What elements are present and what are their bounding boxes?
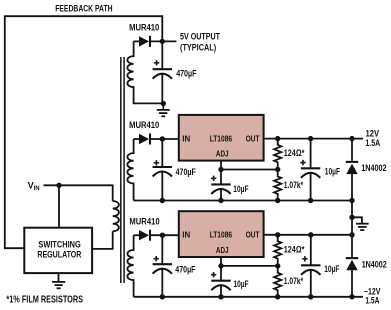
- capacitor C7 10µF (-12V output): [301, 235, 320, 297]
- svg-text:LT1086: LT1086: [210, 134, 233, 143]
- diode D5 1N4002 (-12V clamp): [346, 235, 358, 297]
- capacitor C6 10µF (U2 ADJ): [211, 272, 231, 290]
- junction: winding 3 return on rail: [160, 294, 165, 299]
- svg-text:1.07k*: 1.07k*: [284, 180, 304, 190]
- label: -12V 1.5A output: [364, 286, 381, 305]
- junction: winding 2 return on rail: [160, 198, 165, 203]
- svg-text:10µF: 10µF: [324, 264, 340, 274]
- diode D4 1N4002 (+12V clamp): [346, 139, 358, 201]
- svg-text:470µF: 470µF: [176, 167, 197, 177]
- svg-text:IN: IN: [182, 134, 190, 143]
- wire: +12V section bottom rail: [134, 200, 352, 202]
- svg-text:1.5A: 1.5A: [365, 295, 379, 305]
- svg-text:1N4002: 1N4002: [361, 163, 386, 173]
- svg-text:LT1086: LT1086: [210, 231, 233, 240]
- junction: C4 bottom node: [308, 198, 313, 203]
- svg-text:OUT: OUT: [246, 134, 260, 143]
- junction: U1 input node: [160, 136, 165, 141]
- svg-text:124Ω*: 124Ω*: [284, 244, 305, 254]
- wire: ground link between sections: [351, 201, 353, 235]
- wire: ADJ node to divider tap: [221, 169, 278, 171]
- svg-text:OUT: OUT: [246, 231, 260, 240]
- svg-text:10µF: 10µF: [325, 167, 341, 177]
- capacitor C5 470µF (-12V input): [153, 235, 172, 297]
- junction: U2 input node: [160, 233, 165, 238]
- junction: R2 bottom on rail: [275, 198, 280, 203]
- regulator U1 LT1086: [179, 115, 264, 161]
- ground: system ground tap: [352, 217, 369, 230]
- junction: R4 bottom on rail: [275, 294, 280, 299]
- diode D2 MUR410: [134, 134, 150, 145]
- node VIN label: [28, 180, 40, 192]
- inductor: T1 secondary winding 1 (5V): [127, 41, 163, 103]
- junction: +12V node: [349, 136, 354, 141]
- wire: D3 cathode to U2 IN: [150, 234, 179, 236]
- junction: VIN node: [56, 183, 61, 188]
- junction: R3 top node: [275, 232, 280, 237]
- wire: VIN rail to primary winding top: [44, 185, 113, 201]
- wire: U2 ADJ node to divider tap: [221, 265, 278, 267]
- resistor R3 124Ω: [274, 235, 281, 266]
- svg-text:1N4002: 1N4002: [362, 259, 387, 269]
- wire: U2 OUT rail (ground reference): [264, 234, 352, 236]
- switching regulator block: [24, 228, 92, 273]
- svg-text:5V OUTPUT: 5V OUTPUT: [180, 31, 221, 41]
- junction: U1 ADJ node: [218, 167, 223, 172]
- diode D1 MUR410: [134, 36, 150, 47]
- transformer T1 core: [121, 57, 124, 283]
- label: +12V 1.5A output: [365, 129, 380, 148]
- svg-text:124Ω*: 124Ω*: [284, 148, 305, 158]
- svg-text:MUR410: MUR410: [129, 216, 159, 226]
- junction: U2 OUT / D5 node: [349, 232, 354, 237]
- svg-text:ADJ: ADJ: [216, 150, 229, 159]
- svg-text:1.5A: 1.5A: [365, 138, 380, 148]
- svg-text:IN: IN: [34, 186, 40, 192]
- inductor: T1 secondary winding 2 (+12V): [127, 139, 133, 201]
- capacitor C4 10µF (+12V output): [300, 139, 320, 201]
- wire: U2 ADJ pin down to bottom rail: [220, 257, 222, 297]
- ground: switching regulator: [52, 273, 65, 288]
- junction: D5 anode on -12V rail: [349, 294, 354, 299]
- wire: D1 cathode to 5V output stub: [150, 40, 176, 42]
- junction: divider tap node: [275, 167, 280, 172]
- svg-text:*1% FILM RESISTORS: *1% FILM RESISTORS: [6, 294, 83, 305]
- capacitor C1 470µF (5V): [153, 41, 172, 103]
- resistor R4 1.07k: [274, 266, 281, 297]
- svg-text:470µF: 470µF: [176, 69, 197, 79]
- svg-text:MUR410: MUR410: [129, 22, 159, 32]
- junction: U2 ADJ node: [218, 263, 223, 268]
- svg-text:MUR410: MUR410: [129, 120, 159, 130]
- svg-text:IN: IN: [182, 231, 190, 240]
- diode D3 MUR410: [134, 230, 150, 241]
- svg-text:SWITCHING: SWITCHING: [38, 240, 80, 250]
- wire: U1 OUT rail to +12V terminal: [264, 138, 363, 140]
- wire: feedback path loop (top rail, left rail, into regulator): [5, 16, 163, 248]
- regulator U2 LT1086: [179, 211, 264, 257]
- svg-text:10µF: 10µF: [233, 184, 249, 194]
- junction: 5V output node: [160, 39, 165, 44]
- inductor: T1 primary winding: [113, 201, 119, 231]
- wire: VIN node down to regulator top: [58, 185, 60, 227]
- inductor: T1 secondary winding 3 (-12V): [127, 235, 133, 297]
- svg-text:ADJ: ADJ: [216, 246, 229, 255]
- wire: regulator output to primary winding bottom: [92, 231, 113, 249]
- capacitor C3 10µF (U1 ADJ): [211, 176, 231, 194]
- capacitor C2 470µF (+12V input): [153, 139, 172, 201]
- resistor R2 1.07k: [274, 170, 281, 201]
- wire: -12V section bottom rail: [134, 296, 363, 298]
- junction: C4 top node: [308, 136, 313, 141]
- ground: 5V section: [157, 104, 170, 117]
- svg-text:470µF: 470µF: [175, 264, 196, 274]
- svg-text:1.07k*: 1.07k*: [284, 276, 304, 286]
- svg-text:REGULATOR: REGULATOR: [37, 249, 81, 259]
- wire: D2 cathode to U1 IN: [150, 138, 179, 140]
- svg-text:10µF: 10µF: [233, 279, 249, 289]
- junction: 5V return node: [161, 101, 166, 106]
- junction: R1 top node: [275, 136, 280, 141]
- resistor R1 124Ω: [274, 139, 281, 170]
- junction: C6 bottom on rail: [218, 294, 223, 299]
- svg-text:FEEDBACK PATH: FEEDBACK PATH: [55, 4, 113, 14]
- svg-text:(TYPICAL): (TYPICAL): [180, 43, 216, 53]
- label: 5V OUTPUT (TYPICAL): [180, 31, 221, 52]
- junction: C3 bottom on rail: [218, 198, 223, 203]
- wire: U1 ADJ pin down to bottom rail: [220, 161, 222, 201]
- junction: divider tap node 2: [275, 263, 280, 268]
- junction: ground tap node: [349, 215, 354, 220]
- junction: C7 top node: [308, 232, 313, 237]
- junction: C7 bottom node: [308, 294, 313, 299]
- junction: D4 anode on rail: [349, 198, 354, 203]
